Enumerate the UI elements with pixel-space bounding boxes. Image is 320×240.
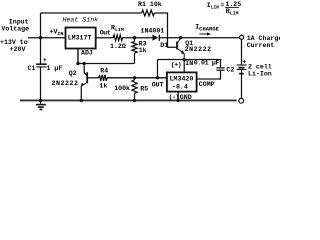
- svg-text:ICHARGE: ICHARGE: [195, 24, 219, 33]
- svg-text:R5: R5: [140, 86, 148, 93]
- svg-text:2N2222: 2N2222: [52, 80, 79, 87]
- svg-text:COMP: COMP: [199, 81, 215, 88]
- svg-text:Input: Input: [9, 18, 29, 25]
- wire COMP loop: [197, 70, 221, 79]
- svg-text:R1 10k: R1 10k: [138, 1, 162, 8]
- svg-text:1.25: 1.25: [225, 1, 241, 8]
- wire IN net horizontal: [158, 59, 222, 61]
- battery C2 2-cell Li-Ion: [237, 65, 247, 74]
- wire LM317 out: [96, 37, 113, 39]
- wire OUT corner vertical: [157, 60, 159, 78]
- svg-text:Heat Sink: Heat Sink: [63, 17, 99, 24]
- wire IN pin: [183, 60, 185, 73]
- wire Q2 collector: [84, 64, 87, 76]
- svg-text:Q2: Q2: [69, 70, 77, 77]
- svg-text:+VIN: +VIN: [50, 29, 64, 38]
- capacitor 0.01uF COMP: [216, 67, 224, 69]
- svg-text:(+): (+): [171, 61, 181, 68]
- wire Q2 emitter: [80, 86, 82, 101]
- resistor RLIM 1.2 ohm: [113, 35, 122, 41]
- node ground terminal: [239, 98, 244, 103]
- wire OUT to LM3420: [107, 77, 167, 79]
- transistor Q2 2N2222: [82, 72, 87, 85]
- svg-text:Li-Ion: Li-Ion: [248, 71, 272, 78]
- svg-text:IN: IN: [185, 60, 193, 67]
- svg-text:LM317T: LM317T: [68, 34, 92, 41]
- wire ADJ horizontal: [78, 63, 135, 65]
- op-amp U2 LM3420 box: [167, 72, 197, 91]
- svg-text:0.01 μF: 0.01 μF: [194, 60, 220, 67]
- svg-text:GND: GND: [180, 94, 192, 101]
- svg-text:1N4001: 1N4001: [141, 27, 165, 34]
- wire rail right corner to Q1 base: [154, 13, 176, 47]
- svg-text:=: =: [220, 2, 224, 9]
- wire 0.01uF cap top stub: [220, 60, 222, 68]
- wire RLIM to D1: [123, 37, 153, 39]
- resistor R1: [142, 10, 155, 16]
- resistor R3 1k: [134, 53, 136, 64]
- transistor Q1 2N2222: [177, 38, 184, 60]
- svg-text:Current: Current: [247, 42, 275, 49]
- svg-text:1 μF: 1 μF: [47, 65, 63, 72]
- svg-text:+20V: +20V: [10, 46, 26, 53]
- wire ADJ pin: [77, 49, 79, 64]
- svg-text:(-): (-): [169, 94, 179, 101]
- ground: [36, 100, 46, 109]
- svg-text:OUT: OUT: [152, 82, 164, 89]
- diode D1 1N4001: [152, 35, 158, 41]
- wire GND pin: [177, 92, 179, 101]
- wire battery column top: [241, 40, 243, 65]
- wire C1 lower: [40, 67, 42, 100]
- wire D1 to output terminal: [160, 37, 240, 39]
- junction dots: [39, 36, 42, 39]
- wire Q2 base: [87, 77, 99, 79]
- wire top rail: [41, 12, 142, 14]
- arrow I_CHARGE: [199, 33, 208, 35]
- svg-text:2N2222: 2N2222: [185, 46, 212, 53]
- svg-text:ILIM: ILIM: [207, 2, 219, 11]
- resistor R4 1k: [99, 75, 107, 81]
- resistor R5 100k: [134, 78, 136, 80]
- svg-text:RLIM: RLIM: [226, 8, 239, 16]
- op-amp U1 LM317T box: [66, 28, 96, 49]
- svg-text:C2: C2: [226, 67, 234, 74]
- svg-text:Voltage: Voltage: [1, 25, 29, 32]
- wire input horizontal: [28, 37, 65, 39]
- capacitor C1 1uF: [36, 63, 46, 65]
- svg-text:ADJ: ADJ: [81, 49, 93, 56]
- svg-text:1k: 1k: [139, 47, 147, 54]
- svg-text:-8.4: -8.4: [172, 84, 188, 91]
- svg-text:2 cell: 2 cell: [248, 64, 272, 71]
- svg-text:100k: 100k: [114, 85, 130, 92]
- svg-text:R4: R4: [100, 68, 108, 75]
- svg-text:D1: D1: [160, 42, 168, 49]
- svg-text:LM3420: LM3420: [170, 76, 194, 83]
- svg-text:RLIM: RLIM: [111, 25, 124, 34]
- svg-text:+: +: [242, 59, 246, 66]
- svg-text:Out: Out: [100, 29, 111, 36]
- ground rail: [20, 99, 237, 101]
- wire battery column bottom: [241, 74, 243, 99]
- svg-text:1.2Ω: 1.2Ω: [110, 43, 126, 50]
- svg-text:C1: C1: [28, 65, 36, 72]
- svg-text:1k: 1k: [99, 83, 107, 90]
- svg-text:+: +: [43, 57, 47, 64]
- node charge output terminal: [240, 35, 244, 39]
- wire input vertical: [40, 13, 42, 64]
